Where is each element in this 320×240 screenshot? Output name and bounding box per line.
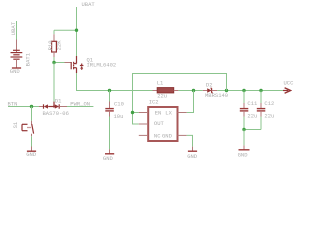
svg-text:R10: R10 (47, 40, 54, 50)
junction LX riser (192, 89, 195, 92)
wire join to ground (243, 130, 245, 146)
node UBAT (battery label, rotated) (10, 21, 17, 35)
svg-text:GND: GND (162, 133, 173, 140)
svg-text:LX: LX (165, 110, 172, 117)
svg-text:10u: 10u (114, 113, 124, 120)
svg-text:NC: NC (154, 133, 161, 140)
svg-text:GND: GND (103, 155, 114, 162)
svg-text:MBRS140: MBRS140 (205, 92, 228, 99)
transistor Q1 IRLML6402 (65, 56, 117, 73)
capacitor C12 (257, 91, 275, 130)
wire gate node (54, 62, 65, 64)
node UBAT (top supply) (82, 1, 96, 8)
wire R10 top horizontal (54, 29, 77, 31)
svg-text:D1: D1 (55, 97, 62, 104)
ground S1 (26, 147, 37, 159)
wire output rail (217, 90, 283, 92)
svg-text:BAT1: BAT1 (24, 52, 31, 66)
svg-text:22u: 22u (247, 113, 257, 120)
wire C10 to ground (109, 117, 111, 150)
IC IC2 (boost regulator, pins EN/LX/OUT/NC/GND) (139, 99, 187, 141)
junction C12 (259, 89, 262, 92)
svg-text:S1: S1 (12, 121, 19, 128)
svg-text:C12: C12 (264, 100, 274, 107)
svg-text:UCC: UCC (284, 80, 295, 87)
ground below C10 (103, 149, 114, 162)
wire UBAT to battery (16, 21, 18, 40)
wire Q1 drain down and right to rail (77, 73, 153, 91)
ground right (238, 145, 250, 158)
switch S1 (pushbutton) (12, 121, 34, 136)
wire BTN (8, 106, 39, 108)
svg-text:GND: GND (26, 151, 37, 158)
junction feedback loop (225, 89, 228, 92)
svg-text:GND: GND (10, 68, 21, 75)
junction UBAT/R10 (75, 29, 78, 32)
resistor R10 (47, 30, 62, 62)
svg-text:22K: 22K (55, 40, 62, 51)
svg-text:C10: C10 (114, 100, 124, 107)
wire feedback loop to EN/OUT (133, 74, 227, 125)
svg-text:C11: C11 (247, 100, 258, 107)
svg-text:IRLML6402: IRLML6402 (87, 62, 117, 69)
svg-text:BAS70-06: BAS70-06 (43, 110, 69, 117)
junction BTN/S1 (30, 105, 33, 108)
wire gate node down to D1 (53, 63, 55, 102)
svg-text:22u: 22u (264, 113, 274, 120)
junction C10 tap (108, 89, 111, 92)
svg-text:EN: EN (155, 110, 162, 117)
wire C11/C12 bottoms joined (244, 129, 261, 131)
wire S1 to ground (31, 136, 33, 146)
wire L1 to D2 (178, 90, 202, 92)
ground below battery (10, 68, 21, 75)
diode D2 MBRS140 (203, 81, 228, 99)
svg-text:22u: 22u (157, 92, 167, 99)
junction gate node (52, 61, 55, 64)
capacitor C11 (240, 91, 258, 130)
svg-text:L1: L1 (157, 80, 164, 87)
node BTN (net stub) (8, 100, 18, 107)
junction bottom join (242, 128, 245, 131)
capacitor C10 (105, 91, 124, 120)
svg-text:PWR_ON: PWR_ON (70, 101, 90, 108)
diode D1 BAS70-06 (dual, common anode) (39, 97, 69, 117)
svg-text:OUT: OUT (154, 120, 165, 127)
svg-text:GND: GND (187, 153, 198, 160)
inductor L1 (153, 80, 179, 100)
battery BAT1 (11, 40, 32, 68)
svg-text:UBAT: UBAT (82, 1, 96, 8)
wire PWR_ON stub (67, 106, 93, 108)
ground IC2 (187, 147, 198, 161)
svg-text:GND: GND (238, 151, 249, 158)
svg-text:D2: D2 (206, 81, 213, 88)
junction C11 (242, 89, 245, 92)
junction EN branch (131, 111, 134, 114)
wire IC2 GND to ground (187, 135, 193, 146)
wire BTN junction down to S1 (31, 107, 33, 121)
svg-text:IC2: IC2 (149, 99, 159, 106)
wire UBAT top vertical (76, 7, 78, 56)
wire LX riser (187, 91, 194, 113)
node UCC (supply arrow) (283, 80, 294, 94)
wire EN branch (133, 112, 139, 114)
node PWR_ON (70, 101, 90, 108)
